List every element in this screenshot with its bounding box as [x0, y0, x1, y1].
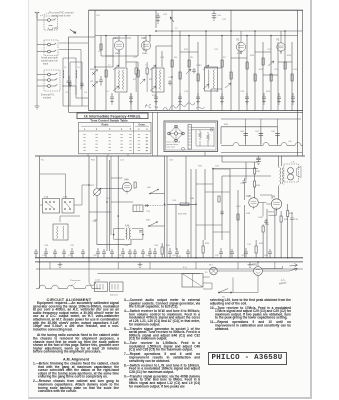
capacitor C20 — [192, 68, 196, 73]
ground bottom-left — [35, 106, 40, 109]
resistor R26 — [202, 246, 204, 253]
dial cord diamond — [169, 127, 183, 141]
capacitor C50 on HT rail — [212, 10, 217, 20]
wire — [40, 174, 89, 205]
resistor R3 — [171, 60, 173, 67]
wire — [212, 169, 214, 258]
wire — [96, 156, 98, 188]
capacitor C57 — [230, 249, 234, 258]
svg-text:8: 8 — [146, 147, 148, 149]
driver transformer T4 — [53, 224, 68, 240]
capacitor C55 — [186, 249, 190, 258]
aerial socket dashed box — [44, 16, 58, 30]
tube V1B — [141, 41, 150, 50]
switch S4C — [150, 190, 165, 194]
capacitor C67 — [141, 249, 145, 258]
chassis bus double — [89, 110, 304, 112]
svg-text:R26: R26 — [205, 243, 210, 245]
tube V4A — [122, 182, 131, 191]
coil L3 — [75, 70, 78, 78]
svg-text:S1A: S1A — [44, 196, 49, 199]
capacitor C40 — [44, 248, 48, 258]
svg-text:C60: C60 — [240, 131, 245, 133]
trimmer arrow T2 bottom — [150, 86, 156, 91]
svg-text:R14: R14 — [266, 91, 271, 93]
wire — [113, 38, 131, 48]
chassis run with loops — [221, 143, 303, 146]
resistor R28 — [255, 246, 257, 253]
svg-text:MR1: MR1 — [252, 264, 258, 267]
filter cap stubs — [246, 119, 278, 146]
svg-text:S4D: S4D — [146, 220, 151, 222]
svg-text:T1: T1 — [108, 65, 111, 67]
screen bus — [95, 35, 298, 37]
svg-text:MW: MW — [90, 69, 95, 71]
wire — [76, 86, 88, 98]
svg-text:R31: R31 — [198, 166, 203, 168]
svg-text:T2: T2 — [145, 65, 148, 67]
twin vertical bus — [165, 156, 168, 258]
tube V1A triode-hexode — [114, 41, 123, 50]
text column 3 — [210, 299, 291, 332]
IF transformer T3 — [205, 67, 218, 91]
diode arrow mid — [140, 79, 145, 84]
electrolytic C61 — [259, 134, 263, 136]
svg-text:4: 4 — [121, 128, 123, 131]
svg-text:R3: R3 — [174, 57, 178, 59]
wire — [221, 151, 303, 153]
capacitor C41 — [70, 248, 74, 258]
resistor R30 — [287, 211, 289, 217]
PHILCO model box — [208, 352, 287, 365]
wire — [221, 118, 301, 120]
svg-text:V2: V2 — [236, 38, 240, 42]
capacitor C7 — [110, 93, 114, 104]
svg-text:6BA6: 6BA6 — [142, 52, 148, 55]
resistor R13 — [284, 62, 286, 69]
lower bus 1 — [35, 257, 303, 259]
pencil scribble note — [145, 104, 158, 108]
svg-text:C39: C39 — [118, 255, 123, 257]
svg-text:3: 3 — [109, 128, 111, 131]
coupling caps to chassis — [62, 76, 76, 86]
resistor R10 — [254, 74, 256, 81]
svg-text:C42: C42 — [215, 255, 220, 257]
voltage selector box 1 — [94, 282, 107, 292]
svg-text:1: 1 — [146, 151, 148, 153]
svg-text:R18: R18 — [287, 55, 292, 57]
wire — [195, 169, 197, 258]
tube stems — [119, 31, 281, 54]
wire — [89, 156, 133, 235]
wire — [203, 271, 254, 293]
aerial symbol — [35, 12, 39, 19]
table-to-rail stubs — [88, 154, 128, 156]
svg-text:MAINS: MAINS — [279, 281, 287, 285]
rectifier MR1 — [254, 267, 263, 276]
resistor R19 — [135, 68, 137, 74]
wire — [117, 156, 119, 258]
capacitor C66 — [128, 249, 132, 258]
coil box A7 — [133, 205, 143, 212]
svg-text:S4C: S4C — [147, 187, 152, 189]
resistor R27 — [218, 196, 220, 202]
svg-text:C39: C39 — [124, 245, 129, 247]
svg-text:1: 1 — [146, 138, 148, 140]
svg-text:C23: C23 — [106, 198, 111, 200]
svg-text:6AT6: 6AT6 — [237, 52, 243, 55]
wire — [244, 205, 246, 258]
svg-text:L8: L8 — [216, 91, 219, 93]
ground symbols on bus — [58, 262, 63, 267]
svg-text:C56: C56 — [217, 15, 222, 17]
svg-text:Gram.: Gram. — [138, 124, 146, 127]
capacitor C58 — [268, 249, 272, 258]
svg-text:C13: C13 — [240, 91, 245, 93]
svg-text:6BW6: 6BW6 — [268, 212, 275, 214]
wire — [186, 156, 191, 258]
voltage selector box 2 — [110, 282, 124, 292]
mains dropper / line cord resistor — [36, 285, 101, 288]
resistor R34 — [254, 181, 256, 187]
wire — [222, 176, 271, 240]
svg-text:C36: C36 — [44, 245, 49, 247]
tube V2 IF amp — [236, 42, 245, 51]
svg-text:V4A: V4A — [124, 179, 129, 182]
coil L1 — [62, 70, 65, 78]
volume control VR1 — [94, 189, 101, 196]
wire stubs table-inset gap — [153, 112, 158, 156]
capacitor C45 — [175, 248, 179, 258]
trimmer arrow IF3 — [225, 83, 231, 88]
svg-text:C10: C10 — [184, 91, 189, 93]
wire — [97, 220, 131, 245]
resistor R23 — [134, 182, 136, 188]
svg-text:R24: R24 — [166, 245, 171, 247]
pulley small — [210, 129, 213, 132]
filter labels — [224, 124, 292, 143]
row labels — [42, 255, 269, 257]
svg-text:S4E: S4E — [190, 198, 195, 200]
wire — [101, 36, 113, 57]
svg-text:C24: C24 — [172, 200, 177, 202]
electrolytic C62 — [275, 134, 279, 136]
heater bus — [36, 268, 303, 270]
svg-text:OSC: OSC — [236, 206, 241, 208]
svg-text:R16: R16 — [250, 55, 255, 57]
capacitor C8 — [129, 93, 133, 104]
capacitor C30 — [153, 248, 157, 258]
output tube V5 — [271, 199, 281, 209]
chassis sub-box corner — [69, 37, 96, 112]
svg-text:C19: C19 — [160, 57, 165, 59]
trimmer arrow T1 bottom — [113, 86, 119, 91]
lower bus 2 — [35, 261, 303, 263]
tone switch wafer S1A — [43, 199, 60, 214]
coil pair — [125, 228, 128, 239]
loudspeaker dashed box — [284, 164, 299, 182]
svg-text:Line1: Line1 — [95, 280, 101, 282]
wire left rail — [36, 14, 38, 106]
capacitor C63 — [34, 249, 38, 258]
svg-text:back: back — [43, 63, 49, 66]
svg-text:Selector: Selector — [110, 294, 118, 297]
capacitor C9 — [154, 93, 158, 104]
svg-text:C41: C41 — [172, 255, 177, 257]
resistor R9 — [246, 62, 248, 69]
labels output stage — [246, 213, 299, 226]
capacitor C10 — [178, 93, 182, 104]
svg-text:V3: V3 — [276, 38, 280, 42]
link contacts — [48, 43, 51, 46]
capacitor C13 — [245, 93, 249, 104]
capacitor C46 — [219, 248, 223, 258]
diode D2 — [92, 82, 98, 88]
svg-text:V1A: V1A — [113, 36, 118, 40]
mains arrow 1 — [289, 268, 297, 271]
dashed leader wire — [40, 13, 49, 16]
capacitor C48 — [53, 249, 57, 258]
gang dashed link — [145, 204, 167, 206]
svg-text:C4: C4 — [84, 92, 88, 94]
svg-text:C61: C61 — [255, 131, 260, 133]
vertical wires — [94, 10, 96, 110]
resistor R6 — [197, 74, 199, 81]
svg-text:C37: C37 — [70, 245, 75, 247]
svg-text:V1B: V1B — [141, 36, 146, 40]
svg-text:Radio: Radio — [102, 124, 109, 127]
svg-text:C2: C2 — [65, 92, 69, 94]
wire — [230, 190, 238, 258]
cathode cap C35 — [290, 212, 294, 258]
svg-text:R15: R15 — [184, 49, 189, 51]
capacitor C33 with ground — [256, 156, 261, 164]
svg-text:C28: C28 — [240, 183, 245, 185]
capacitor C52 — [110, 249, 114, 258]
svg-text:C34: C34 — [265, 224, 270, 226]
wire — [59, 43, 88, 90]
svg-text:C17: C17 — [133, 57, 138, 59]
osc tube V4B triode — [249, 198, 259, 208]
top border bus — [89, 9, 304, 11]
wire — [63, 58, 88, 106]
svg-text:R21: R21 — [90, 185, 95, 187]
table body dashes — [83, 134, 148, 150]
electrolytic C60 — [244, 134, 248, 136]
resistor R2 — [137, 70, 139, 77]
svg-text:C51: C51 — [96, 15, 101, 17]
wire to mains arrows — [262, 266, 289, 271]
resistor R25 — [100, 44, 102, 50]
svg-text:R30: R30 — [289, 213, 294, 215]
capacitor C31 — [168, 248, 172, 258]
svg-text:4: 4 — [146, 128, 148, 131]
resistor R38 — [280, 216, 282, 222]
cord tension spring 2 — [207, 132, 210, 142]
svg-text:C25: C25 — [146, 211, 151, 213]
capacitor C2 — [68, 82, 72, 87]
wire — [60, 216, 80, 222]
aerial coil L1 wires — [63, 58, 82, 106]
gang pulley — [182, 147, 185, 150]
capacitor C16 — [291, 93, 295, 104]
svg-text:C44: C44 — [264, 255, 269, 257]
svg-text:C21: C21 — [214, 49, 219, 51]
svg-text:R38: R38 — [284, 219, 289, 221]
svg-text:R50: R50 — [91, 160, 96, 162]
svg-text:C53: C53 — [169, 160, 174, 162]
diode arrow right — [186, 69, 191, 74]
resistor R8 — [230, 72, 232, 79]
resistor R36 — [262, 226, 264, 232]
svg-text:L30: L30 — [288, 141, 292, 143]
resistor R7 — [221, 60, 223, 67]
wire — [106, 156, 108, 251]
svg-text:rear view: rear view — [167, 146, 176, 149]
wire — [167, 203, 196, 205]
junction dots lower — [39, 168, 289, 263]
svg-text:C35: C35 — [294, 219, 299, 221]
on-off switch S5 — [219, 289, 231, 293]
diode D1 — [92, 70, 98, 76]
trimmer arrow det — [268, 61, 274, 66]
resistor R32 — [254, 168, 256, 174]
svg-text:C26: C26 — [92, 221, 97, 223]
resistor R22 — [180, 203, 189, 205]
CIRCUIT ALIGNMENT heading — [33, 297, 105, 302]
svg-text:C62: C62 — [271, 131, 276, 133]
horizontal link wires — [95, 46, 292, 89]
top rail — [35, 155, 305, 157]
capacitor C1 — [99, 76, 103, 86]
capacitor C64 — [62, 249, 66, 258]
gram column digits — [146, 138, 148, 153]
wire — [40, 269, 96, 289]
capacitor C4 — [80, 82, 84, 87]
svg-text:1: 1 — [84, 128, 86, 131]
resistor R12 — [270, 74, 272, 81]
svg-text:sockets: sockets — [43, 97, 52, 100]
resistor R4 — [179, 72, 181, 79]
IF transformer T1 — [115, 68, 127, 92]
resistor R11 — [262, 58, 264, 65]
svg-text:V4B: V4B — [246, 195, 251, 198]
capacitor C47 — [244, 248, 248, 258]
capacitor C49 — [81, 249, 85, 258]
svg-text:LW: LW — [90, 81, 94, 83]
svg-text:C47: C47 — [247, 244, 252, 246]
capacitor C18 — [168, 80, 172, 85]
capacitor C15 — [277, 93, 281, 104]
svg-text:1: 1 — [138, 128, 140, 131]
svg-text:C25: C25 — [293, 69, 298, 71]
wire rectifier feeds — [231, 262, 258, 293]
arrow into chassis — [70, 30, 76, 34]
capacitor C5 aerial coupling — [156, 13, 160, 23]
wire loop — [114, 229, 143, 240]
capacitor C54 — [133, 249, 137, 258]
trimmer arrow T2 top — [150, 65, 156, 70]
wire — [196, 184, 230, 232]
svg-text:C27: C27 — [215, 166, 220, 168]
svg-text:L1: L1 — [64, 67, 67, 69]
wire — [204, 169, 206, 240]
text column 2 — [124, 299, 200, 390]
cord run lines — [191, 128, 214, 148]
resistor R29 — [237, 214, 239, 220]
svg-text:0: 0 — [146, 141, 148, 143]
wire — [213, 169, 230, 240]
svg-text:5: 5 — [130, 128, 132, 131]
label group aerial coils — [64, 67, 88, 94]
svg-text:0: 0 — [146, 144, 148, 146]
resistor R14 — [291, 74, 293, 81]
filter box wires — [221, 127, 278, 144]
capacitor C12 — [220, 93, 224, 104]
svg-text:aerial lead-in wire: aerial lead-in wire — [52, 15, 71, 18]
mains input box — [182, 274, 203, 288]
right border double wire — [298, 10, 303, 156]
wire — [267, 209, 275, 258]
junction dots — [94, 30, 286, 78]
output transformer T5 — [280, 167, 281, 184]
left rail — [39, 156, 41, 289]
resistor R5 — [188, 60, 190, 67]
svg-text:6BE6: 6BE6 — [115, 53, 121, 55]
svg-text:E.S.: E.S. — [183, 267, 188, 269]
cord tension spring 1 — [199, 130, 202, 140]
mains arrow 2 — [289, 264, 297, 267]
aerial socket contacts — [48, 19, 51, 22]
svg-text:C5M: C5M — [258, 217, 263, 219]
resistor R20 — [146, 68, 148, 74]
trimmer arrow T1 top — [113, 65, 119, 70]
wire — [98, 273, 201, 275]
resistor R1 — [105, 70, 107, 77]
wire — [88, 156, 90, 262]
heater stubs — [50, 262, 275, 269]
resistor R24 — [161, 247, 163, 254]
svg-text:S1B: S1B — [63, 197, 68, 199]
output stage grid wiring — [258, 195, 276, 217]
component labels row — [90, 14, 298, 97]
capacitor C44 — [148, 248, 152, 258]
switch S4D — [149, 222, 165, 226]
capacitor C11 — [196, 93, 200, 104]
svg-text:R32: R32 — [256, 171, 261, 173]
capacitor C65 — [102, 249, 106, 258]
svg-text:C30: C30 — [154, 245, 159, 247]
capacitor C43 — [121, 248, 125, 258]
tube V3 detector — [277, 43, 285, 51]
svg-text:C52: C52 — [163, 14, 168, 16]
svg-text:L6: L6 — [106, 91, 109, 93]
capacitor C34 — [264, 219, 268, 224]
svg-text:R.L: R.L — [41, 160, 45, 162]
svg-text:R40: R40 — [224, 124, 229, 126]
tone switch wafer S1B — [62, 199, 74, 214]
svg-text:R22 WW: R22 WW — [178, 214, 188, 216]
trimmer arrow T3 bottom — [203, 84, 209, 89]
svg-text:Thermistor: Thermistor — [70, 279, 81, 282]
svg-text:C43: C43 — [241, 255, 246, 257]
dial scale pointer bar — [188, 125, 191, 150]
PU contacts — [48, 73, 51, 76]
gram pickup dashed box — [44, 70, 60, 91]
capacitor C42 — [96, 248, 100, 258]
svg-text:R5: R5 — [190, 57, 194, 59]
text column 1 — [33, 302, 119, 395]
